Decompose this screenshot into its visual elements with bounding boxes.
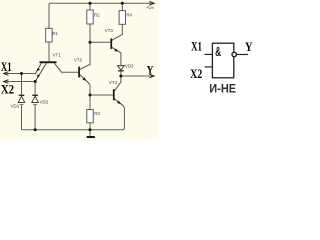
wire node to R3 top: [89, 95, 91, 110]
wire VT4 emitter down with rounded corners to ground rail: [122, 105, 124, 130]
svg-text:R4: R4: [126, 12, 132, 17]
svg-text:X2: X2: [190, 67, 202, 81]
input arrow X1: [4, 72, 9, 76]
background left scan (cream): [0, 0, 159, 140]
svg-text:VD1: VD1: [11, 103, 20, 108]
gate input stub X2: [205, 66, 213, 68]
wire VD2 branch lower: [34, 105, 36, 130]
transistor VT1 base bar: [40, 61, 57, 63]
wire VD1 branch upper: [21, 74, 23, 95]
wire VT4 collector vertical: [120, 76, 122, 82]
svg-text:Y: Y: [147, 64, 154, 76]
svg-text:R1: R1: [52, 31, 58, 36]
wire VT2 emitter corner down to node: [88, 83, 90, 95]
wire ground rail: [22, 129, 123, 131]
input arrow X2: [4, 80, 9, 84]
wire R4 bottom to VT3 collector corner: [121, 24, 123, 34]
wire R1 top branch: [48, 4, 50, 28]
wire VT1 collector to VT2 base: [62, 71, 79, 73]
svg-text:Y: Y: [245, 40, 253, 54]
emitter arrow VT2: [83, 77, 87, 81]
wire R4 top branch: [121, 3, 123, 10]
resistor R4: [119, 11, 125, 25]
diode VD2: [32, 95, 39, 104]
diode VD3: [118, 66, 125, 71]
svg-text:VT2: VT2: [74, 57, 83, 62]
wire VT3 emitter vertical to VD3: [120, 53, 122, 66]
wire node to VT4 base: [90, 94, 113, 96]
background right (white): [159, 0, 261, 140]
wire X1 input: [4, 73, 36, 75]
svg-text:&: &: [215, 44, 221, 59]
node VT2 emitter/R3/VT4 base: [89, 94, 92, 97]
transistor VT3 diagonals: [112, 35, 122, 53]
resistor R1: [46, 28, 52, 42]
wire R3 bottom to ground rail: [89, 123, 91, 130]
node X2/VD2/emitter2: [34, 80, 37, 83]
wire R1 bottom to VT1 base: [48, 42, 50, 61]
svg-text:VD3: VD3: [125, 64, 134, 69]
gate output wire: [237, 54, 249, 56]
wire VD1 branch lower: [21, 105, 23, 130]
node R3/ground rail: [89, 128, 92, 131]
wire Y output: [121, 75, 154, 77]
svg-text:R3: R3: [94, 111, 100, 116]
transistor VT4 diagonals: [115, 82, 123, 105]
wire VD2 branch upper: [34, 82, 36, 95]
node VD2/ground rail: [34, 128, 37, 131]
gate input stub X1: [205, 53, 213, 55]
wire X2 input: [4, 81, 35, 83]
emitter arrow VT3: [114, 49, 118, 52]
transistor VT1 diagonals: [35, 63, 61, 81]
resistor R3: [87, 110, 93, 123]
transistor VT3 base bar: [110, 39, 112, 49]
svg-text:X2: X2: [1, 82, 14, 96]
svg-text:X1: X1: [191, 40, 202, 54]
gate body box: [212, 43, 233, 78]
emitter arrow VT1 e1: [37, 68, 40, 72]
emitter arrow VT1 e2: [37, 74, 40, 78]
gate inversion bubble: [232, 52, 236, 56]
ground: [87, 136, 95, 138]
wire node to VT3 base: [90, 41, 110, 43]
wire R2 top branch: [89, 3, 91, 10]
svg-text:VT3: VT3: [105, 28, 114, 33]
node Y/VD3/VT4 collector: [119, 75, 122, 78]
wire R2 bottom through node to VT2 collector: [89, 24, 91, 65]
svg-text:VD2: VD2: [40, 100, 49, 105]
supply arrow +Up: [149, 2, 154, 6]
wire VT2 collector vertical: [89, 42, 91, 64]
transistor VT4 base bar: [113, 89, 115, 100]
svg-text:VT4: VT4: [109, 80, 118, 85]
node rail/R4: [121, 2, 124, 5]
wire VD3 to Y node: [120, 71, 122, 76]
wire top power rail: [49, 3, 154, 4]
output arrow Y: [149, 74, 154, 78]
diode VD1: [18, 95, 25, 104]
node rail/R2: [89, 2, 92, 5]
svg-text:+Uп: +Uп: [146, 5, 154, 10]
svg-text:И-НЕ: И-НЕ: [209, 81, 236, 95]
resistor R2: [87, 10, 93, 24]
svg-text:R2: R2: [94, 12, 100, 17]
wire ground stub: [89, 130, 91, 136]
svg-text:VT1: VT1: [53, 53, 62, 58]
node R2/VT3 base: [89, 41, 92, 44]
emitter arrow VT4: [117, 101, 121, 105]
node X1/VD1: [20, 72, 23, 75]
svg-text:X1: X1: [1, 60, 12, 74]
transistor VT2 base bar: [78, 67, 80, 78]
transistor VT2 diagonals: [80, 64, 90, 83]
